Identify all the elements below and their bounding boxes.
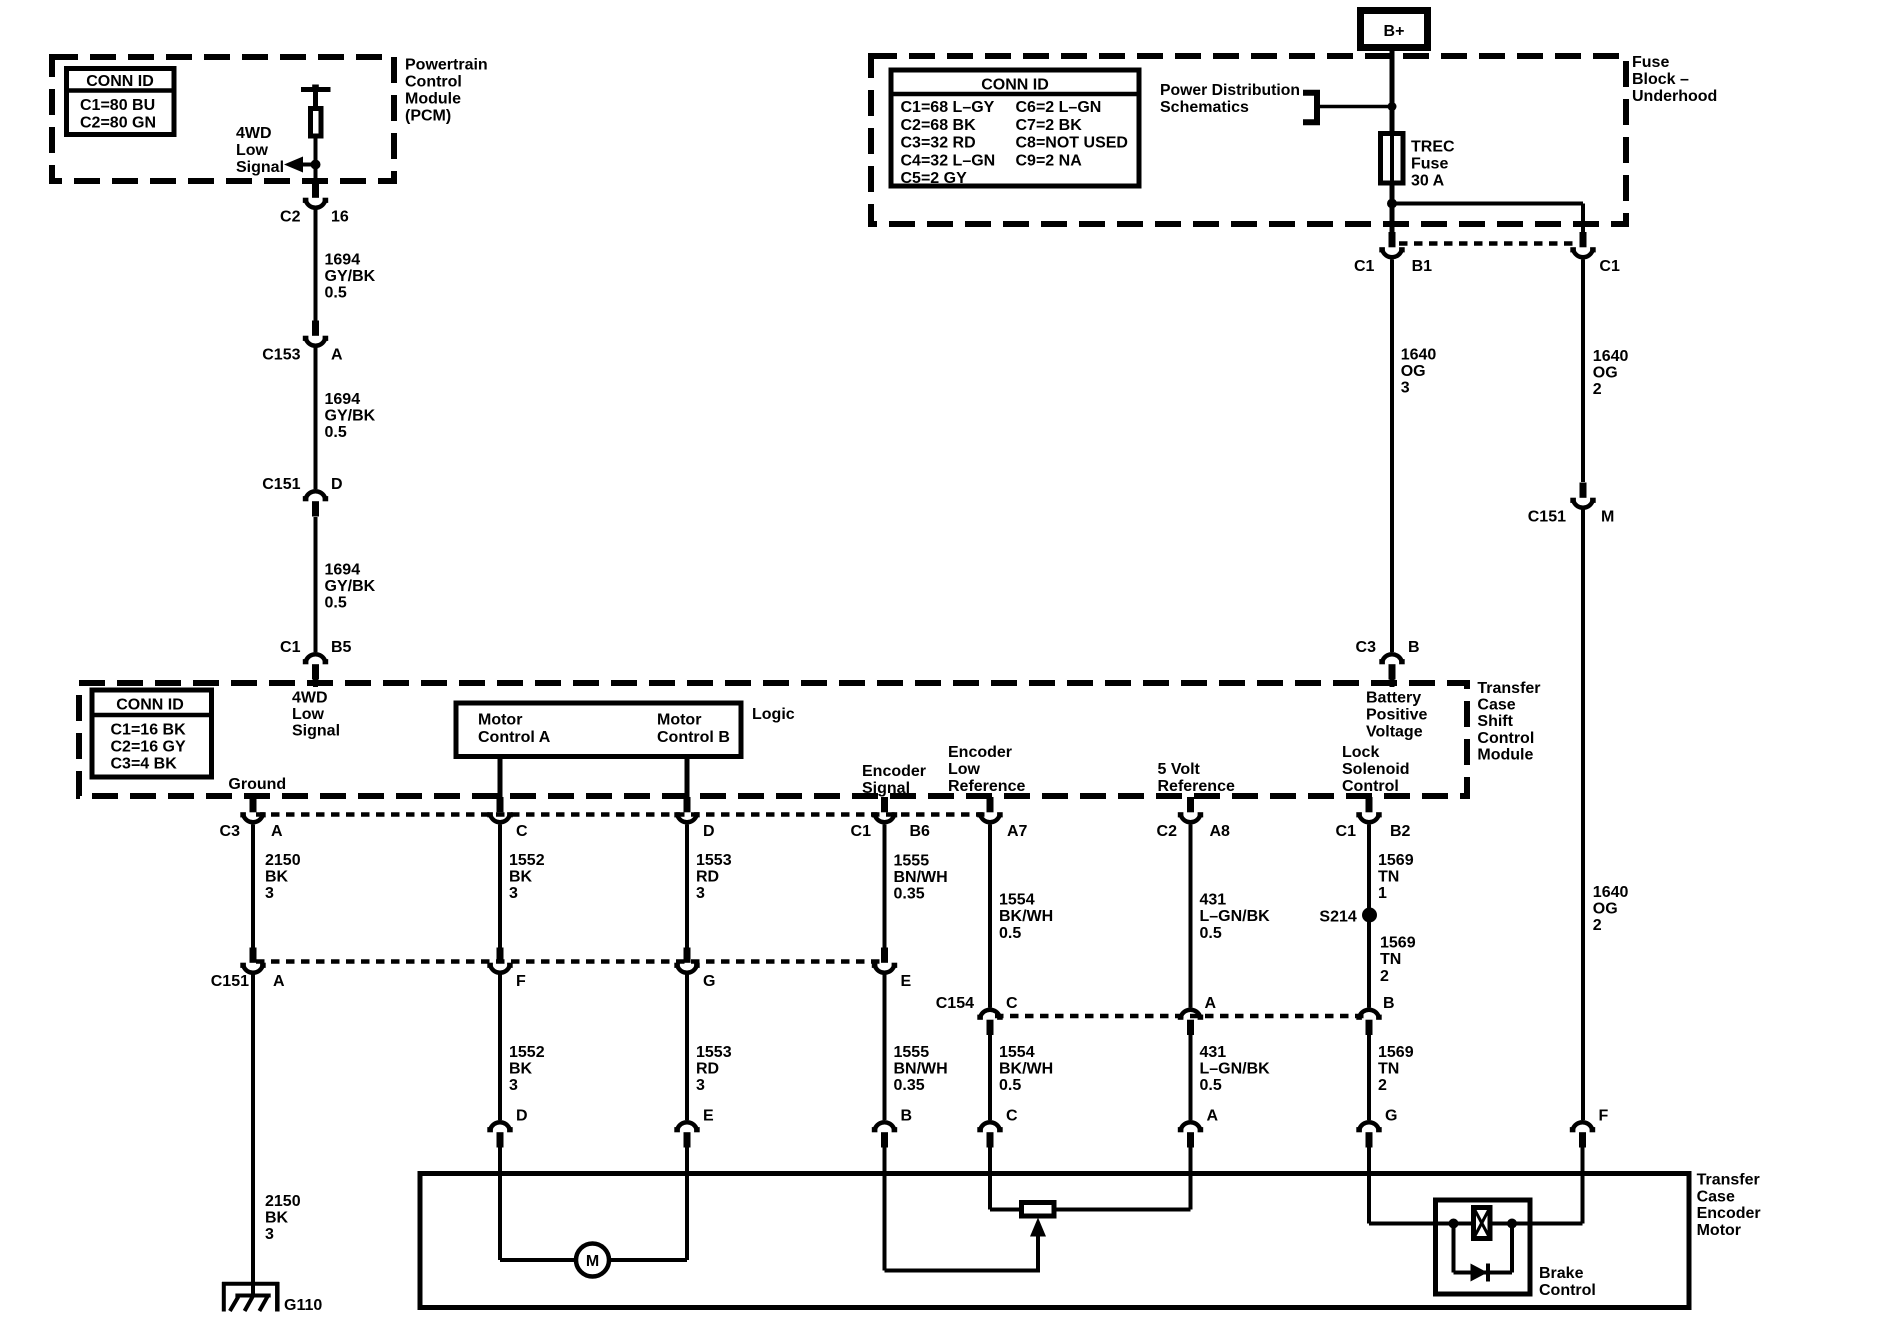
svg-text:TN: TN <box>1380 951 1401 968</box>
svg-text:B: B <box>901 1108 913 1125</box>
svg-text:Case: Case <box>1697 1188 1735 1205</box>
svg-text:1: 1 <box>1378 885 1387 902</box>
svg-text:C1: C1 <box>280 639 301 656</box>
svg-text:TREC: TREC <box>1411 139 1455 156</box>
svg-text:1554: 1554 <box>999 1044 1035 1061</box>
label wire 431 L-GN/BK 0.5 (2) <box>1200 1044 1271 1094</box>
connector C154 pin A (5 volt ref) <box>1178 995 1217 1035</box>
wire 1694 GY/BK 0.5 (C151-D to C1-B5) <box>314 517 318 652</box>
svg-text:C2=16 GY: C2=16 GY <box>111 739 186 756</box>
label wire 1694 GY/BK 0.5 (3) <box>325 562 376 612</box>
svg-text:Control: Control <box>1477 730 1534 747</box>
svg-text:1694: 1694 <box>325 252 361 269</box>
svg-text:G110: G110 <box>284 1297 322 1314</box>
svg-text:L–GN/BK: L–GN/BK <box>1200 1061 1271 1078</box>
svg-text:CONN ID: CONN ID <box>86 73 154 90</box>
svg-text:16: 16 <box>331 209 349 226</box>
label Logic <box>752 706 795 723</box>
svg-text:C9=2 NA: C9=2 NA <box>1016 152 1083 169</box>
label wire 1569 TN 2 <box>1380 935 1416 985</box>
svg-text:BK: BK <box>265 869 289 886</box>
svg-text:A: A <box>271 823 283 840</box>
wire (node to connector B1) <box>1390 204 1395 233</box>
svg-text:C2: C2 <box>280 209 301 226</box>
svg-text:GY/BK: GY/BK <box>325 408 376 425</box>
svg-text:C: C <box>516 823 528 840</box>
brake solenoid <box>1454 1208 1513 1239</box>
module box Fuse Block - Underhood, dashed <box>871 56 1626 224</box>
wire (branch to right drop) <box>1392 202 1583 206</box>
wire (D into motor) <box>500 1148 577 1261</box>
svg-text:0.5: 0.5 <box>325 595 347 612</box>
svg-text:C3: C3 <box>1356 639 1377 656</box>
connector C3 pin B (TCSCM battery) <box>1356 639 1420 680</box>
wire (B+ to fuse) <box>1390 48 1395 134</box>
svg-text:0.5: 0.5 <box>325 424 347 441</box>
svg-text:C154: C154 <box>936 995 974 1012</box>
wire (C3-B pin into TCSCM) <box>1390 678 1395 687</box>
svg-text:Fuse: Fuse <box>1632 54 1669 71</box>
svg-text:0.5: 0.5 <box>325 285 347 302</box>
svg-text:GY/BK: GY/BK <box>325 578 376 595</box>
svg-text:CONN ID: CONN ID <box>116 697 184 714</box>
wire 1555 BN/WH 0.35 (B6 to E) <box>883 825 887 948</box>
svg-text:1569: 1569 <box>1378 1044 1414 1061</box>
connector C2 pin A8 (5 volt reference) <box>1157 797 1231 840</box>
svg-text:C1=80 BU: C1=80 BU <box>80 97 155 114</box>
svg-text:OG: OG <box>1593 901 1618 918</box>
svg-text:(PCM): (PCM) <box>405 108 451 125</box>
svg-text:C2=80 GN: C2=80 GN <box>80 115 156 132</box>
label Battery Positive Voltage <box>1366 689 1427 740</box>
svg-text:G: G <box>1385 1108 1397 1125</box>
svg-text:0.35: 0.35 <box>894 1077 925 1094</box>
svg-text:Brake: Brake <box>1539 1265 1584 1282</box>
wire 1552 BK 3 (C to F) <box>498 825 502 948</box>
label wire 1553 RD 3 (2) <box>696 1044 732 1094</box>
svg-text:F: F <box>516 973 526 990</box>
label wire 1553 RD 3 <box>696 852 732 902</box>
svg-text:C3=32 RD: C3=32 RD <box>901 135 976 152</box>
svg-text:Transfer: Transfer <box>1697 1172 1760 1189</box>
resistor (4WD low signal pull-up, inside PCM) <box>301 85 331 137</box>
node brake solenoid right <box>1507 1219 1517 1229</box>
wire (fuse to branch node) <box>1390 183 1395 204</box>
svg-text:C7=2 BK: C7=2 BK <box>1016 117 1083 134</box>
connector C151 pin D <box>262 476 342 517</box>
module box Powertrain Control Module (PCM), dashed <box>52 57 394 181</box>
svg-text:Block –: Block – <box>1632 71 1689 88</box>
svg-text:Fuse: Fuse <box>1411 156 1448 173</box>
connector pin A (encoder motor) <box>1178 1108 1219 1148</box>
svg-text:2150: 2150 <box>265 1193 301 1210</box>
svg-text:Motor: Motor <box>1697 1222 1741 1239</box>
svg-text:D: D <box>516 1108 528 1125</box>
motor M <box>576 1244 609 1277</box>
svg-text:30 A: 30 A <box>1411 173 1445 190</box>
svg-text:Signal: Signal <box>862 780 910 797</box>
label TREC Fuse 30 A <box>1411 139 1455 190</box>
connector pin G (motor control B) <box>674 948 715 991</box>
label wire 1640 OG 2 (2) <box>1593 884 1629 934</box>
wire 1553 RD 3 (D to G) <box>685 825 689 948</box>
connector C1 pin B1 (fuse block left) <box>1354 232 1432 275</box>
svg-text:Low: Low <box>948 761 981 778</box>
svg-text:BK/WH: BK/WH <box>999 1061 1053 1078</box>
wire 1554 BK/WH 0.5 (A7 to C154-C) <box>988 825 992 1008</box>
logic block (Motor Control A / Motor Control B) <box>456 703 741 757</box>
svg-text:1552: 1552 <box>509 1044 545 1061</box>
svg-text:Control: Control <box>1539 1282 1596 1299</box>
svg-text:5 Volt: 5 Volt <box>1158 761 1201 778</box>
svg-text:3: 3 <box>509 1077 518 1094</box>
svg-text:M: M <box>586 1253 599 1270</box>
svg-text:Motor: Motor <box>657 712 701 729</box>
label wire 1569 TN 2 (2) <box>1378 1044 1414 1094</box>
module box Transfer Case Encoder Motor <box>420 1174 1689 1308</box>
svg-text:0.5: 0.5 <box>999 1077 1021 1094</box>
wire (motor to E) <box>608 1148 687 1261</box>
wire motor control B (logic to edge) <box>685 757 690 799</box>
dashed tie line row C151 <box>256 959 880 964</box>
label wire 1552 BK 3 (2) <box>509 1044 545 1094</box>
svg-text:C2: C2 <box>1157 823 1178 840</box>
svg-text:Low: Low <box>236 142 269 159</box>
svg-text:Low: Low <box>292 706 325 723</box>
wire 431 L-GN/BK 0.5 (C154-A to A) <box>1189 1035 1193 1120</box>
dashed connector tie line C1-C1 <box>1399 241 1576 246</box>
svg-text:BK: BK <box>509 869 533 886</box>
svg-text:Voltage: Voltage <box>1366 723 1423 740</box>
svg-text:Motor: Motor <box>478 712 522 729</box>
svg-text:C1=16 BK: C1=16 BK <box>111 722 187 739</box>
connector C154 pin C (encoder low ref) <box>936 995 1018 1035</box>
connector C2 pin 16 (PCM) <box>280 183 349 226</box>
svg-text:BK/WH: BK/WH <box>999 908 1053 925</box>
svg-text:4WD: 4WD <box>292 690 328 707</box>
wire (right drop to connector C1) <box>1581 204 1585 233</box>
wire 1569 TN 2 (C154-B to G) <box>1367 1035 1371 1120</box>
svg-text:C151: C151 <box>1528 509 1566 526</box>
svg-text:C1: C1 <box>851 823 872 840</box>
svg-text:2: 2 <box>1593 917 1602 934</box>
svg-text:3: 3 <box>696 885 705 902</box>
svg-text:Control B: Control B <box>657 729 730 746</box>
connector pin D (motor control B) <box>674 797 714 840</box>
svg-text:B6: B6 <box>910 823 931 840</box>
svg-text:C4=32 L–GN: C4=32 L–GN <box>901 152 996 169</box>
svg-text:A: A <box>1205 995 1217 1012</box>
connector C1 (fuse block right) <box>1570 232 1620 275</box>
svg-text:L–GN/BK: L–GN/BK <box>1200 908 1271 925</box>
svg-text:B2: B2 <box>1390 823 1411 840</box>
connector pin E (encoder signal) <box>872 948 912 991</box>
potentiometer (encoder) <box>1022 1203 1055 1217</box>
dashed tie line row C154 <box>995 1014 1364 1019</box>
svg-text:1694: 1694 <box>325 562 361 579</box>
svg-text:1640: 1640 <box>1593 348 1629 365</box>
connector C151 pin A (ground) <box>211 948 285 991</box>
svg-text:Module: Module <box>405 91 461 108</box>
connector pin C (motor control A) <box>487 797 528 840</box>
ground G110 <box>222 1282 322 1314</box>
svg-text:A8: A8 <box>1210 823 1231 840</box>
wire 2150 BK 3 (A to C151-A) <box>251 825 255 948</box>
connector pin D (encoder motor) <box>487 1108 527 1148</box>
wire 2150 BK 3 (C151-A to G110) <box>251 975 255 1284</box>
CONN ID table (TCSCM): C1=16 BK, C2=16 GY, C3=4 BK <box>92 690 212 777</box>
node fuse output junction <box>1387 199 1397 209</box>
svg-text:B: B <box>1408 639 1420 656</box>
svg-text:C1: C1 <box>1599 258 1620 275</box>
svg-text:1555: 1555 <box>894 853 930 870</box>
svg-text:B1: B1 <box>1412 258 1433 275</box>
svg-text:C: C <box>1006 1108 1018 1125</box>
wire (resistor to PCM edge) <box>314 139 318 185</box>
svg-text:OG: OG <box>1401 363 1426 380</box>
connector pin F (encoder motor) <box>1570 1108 1609 1148</box>
svg-text:S214: S214 <box>1319 909 1356 926</box>
wire (potentiometer to A) <box>1054 1148 1191 1210</box>
connector C1 pin B5 (TCSCM) <box>280 639 352 680</box>
label Powertrain Control Module (PCM) <box>405 57 488 125</box>
svg-text:C8=NOT USED: C8=NOT USED <box>1016 135 1128 152</box>
svg-text:B: B <box>1383 995 1395 1012</box>
wire 1569 TN 2 (S214 to C154-B) <box>1367 915 1371 1008</box>
svg-text:GY/BK: GY/BK <box>325 268 376 285</box>
svg-text:Encoder: Encoder <box>948 744 1012 761</box>
node brake solenoid left <box>1449 1219 1459 1229</box>
svg-text:E: E <box>901 973 912 990</box>
label wire 1640 OG 2 <box>1593 348 1629 398</box>
svg-text:C1=68 L–GY: C1=68 L–GY <box>901 99 995 116</box>
connector C1 pin B6 (encoder signal) <box>851 797 931 840</box>
svg-text:Logic: Logic <box>752 706 795 723</box>
connector pin F (motor control A) <box>487 948 526 991</box>
svg-text:A: A <box>1207 1108 1219 1125</box>
signal arrow 4WD Low Signal <box>284 157 321 173</box>
connector C153 pin A <box>262 321 343 364</box>
wire 1554 BK/WH 0.5 (C154-C to C) <box>988 1035 992 1120</box>
connector pin G (encoder motor) <box>1356 1108 1397 1148</box>
wire (B to wiper) <box>885 1148 1041 1271</box>
svg-text:2: 2 <box>1378 1077 1387 1094</box>
svg-text:Solenoid: Solenoid <box>1342 761 1410 778</box>
svg-text:E: E <box>703 1108 714 1125</box>
wire 1694 GY/BK 0.5 (C153-A to C151-D) <box>314 348 318 490</box>
svg-text:TN: TN <box>1378 869 1399 886</box>
label wire 431 L-GN/BK 0.5 <box>1200 892 1271 942</box>
splice S214 <box>1319 908 1377 926</box>
svg-text:3: 3 <box>265 1226 274 1243</box>
svg-text:Schematics: Schematics <box>1160 99 1249 116</box>
svg-text:G: G <box>703 973 715 990</box>
svg-text:F: F <box>1599 1108 1609 1125</box>
svg-text:2: 2 <box>1593 381 1602 398</box>
svg-text:0.35: 0.35 <box>894 886 925 903</box>
wire 1640 OG 2 (C151-M to encoder F) <box>1581 510 1585 1121</box>
wire 1555 BN/WH 0.35 (E to B) <box>883 975 887 1121</box>
svg-text:Underhood: Underhood <box>1632 88 1717 105</box>
svg-text:C151: C151 <box>262 476 300 493</box>
label wire 1555 BN/WH 0.35 <box>894 853 948 903</box>
connector pin A7 (encoder low reference) <box>977 797 1027 840</box>
wire motor control A (logic to edge) <box>498 757 503 799</box>
svg-text:1569: 1569 <box>1380 935 1416 952</box>
svg-text:4WD: 4WD <box>236 125 272 142</box>
svg-text:A: A <box>331 347 343 364</box>
dashed tie line row C3/C1 connectors <box>256 812 988 817</box>
wiper arrow (encoder signal) <box>1030 1218 1046 1273</box>
svg-text:BN/WH: BN/WH <box>894 869 948 886</box>
svg-text:1569: 1569 <box>1378 852 1414 869</box>
label Transfer Case Shift Control Module <box>1477 680 1540 764</box>
label wire 1569 TN 1 <box>1378 852 1414 902</box>
svg-text:Control A: Control A <box>478 729 551 746</box>
label Encoder Signal <box>862 763 926 797</box>
label Lock Solenoid Control <box>1342 744 1410 795</box>
svg-text:C1: C1 <box>1354 258 1375 275</box>
svg-text:Signal: Signal <box>236 159 284 176</box>
label Brake Control <box>1539 1265 1596 1299</box>
svg-text:1555: 1555 <box>894 1044 930 1061</box>
label wire 1694 GY/BK 0.5 (2) <box>325 391 376 441</box>
svg-text:Positive: Positive <box>1366 706 1427 723</box>
wire 1552 BK 3 (F to D) <box>498 975 502 1121</box>
svg-text:1553: 1553 <box>696 852 732 869</box>
svg-text:C153: C153 <box>262 347 300 364</box>
svg-text:TN: TN <box>1378 1061 1399 1078</box>
svg-text:C: C <box>1006 995 1018 1012</box>
svg-text:Module: Module <box>1477 747 1533 764</box>
svg-text:A7: A7 <box>1007 823 1028 840</box>
svg-text:Encoder: Encoder <box>1697 1205 1761 1222</box>
connector C1 pin B2 (lock solenoid control) <box>1336 797 1411 840</box>
svg-text:C5=2 GY: C5=2 GY <box>901 170 968 187</box>
svg-text:B+: B+ <box>1384 23 1405 40</box>
wire (C to potentiometer) <box>990 1148 1022 1210</box>
wire 431 L-GN/BK 0.5 (A8 to C154-A) <box>1189 825 1193 1008</box>
svg-text:C2=68 BK: C2=68 BK <box>901 117 977 134</box>
svg-text:0.5: 0.5 <box>1200 1077 1222 1094</box>
label wire 1640 OG 3 <box>1401 346 1437 396</box>
svg-text:431: 431 <box>1200 892 1227 909</box>
svg-text:A: A <box>273 973 285 990</box>
svg-text:3: 3 <box>509 885 518 902</box>
svg-text:0.5: 0.5 <box>999 925 1021 942</box>
svg-text:BN/WH: BN/WH <box>894 1061 948 1078</box>
svg-text:3: 3 <box>265 885 274 902</box>
label Transfer Case Encoder Motor <box>1697 1172 1761 1239</box>
wire 1640 OG 3 (B1 to C3-B) <box>1390 260 1394 653</box>
svg-text:Control: Control <box>405 74 462 91</box>
power node B+ <box>1361 11 1428 48</box>
label wire 1694 GY/BK 0.5 <box>325 252 376 302</box>
svg-text:RD: RD <box>696 1061 719 1078</box>
label Ground <box>228 776 286 793</box>
wire 1694 GY/BK 0.5 (C2-16 to C153-A) <box>314 210 318 322</box>
svg-text:Lock: Lock <box>1342 744 1379 761</box>
label Fuse Block - Underhood <box>1632 54 1717 105</box>
brake control box <box>1436 1200 1531 1294</box>
wire 1569 TN 1 (B2 to S214) <box>1367 825 1371 916</box>
flyback diode <box>1454 1224 1513 1282</box>
svg-text:Ground: Ground <box>228 776 286 793</box>
off-page reference Power Distribution Schematics <box>1160 82 1397 122</box>
svg-text:D: D <box>703 823 715 840</box>
svg-text:C3=4 BK: C3=4 BK <box>111 756 178 773</box>
fuse TREC Fuse 30 A <box>1381 134 1404 184</box>
svg-text:1640: 1640 <box>1593 884 1629 901</box>
connector pin C (encoder motor) <box>977 1108 1018 1148</box>
label wire 2150 BK 3 <box>265 852 301 902</box>
wire (brake to F) <box>1512 1148 1583 1224</box>
svg-text:CONN ID: CONN ID <box>981 77 1049 94</box>
label wire 1554 BK/WH 0.5 <box>999 892 1053 942</box>
connector C3 pin A (ground) <box>220 796 283 840</box>
svg-text:B5: B5 <box>331 639 352 656</box>
label Encoder Low Reference <box>948 744 1025 795</box>
svg-text:2: 2 <box>1380 968 1389 985</box>
connector pin B (encoder motor) <box>872 1108 912 1148</box>
connector C154 pin B (lock solenoid) <box>1356 995 1394 1035</box>
wire 1553 RD 3 (G to E) <box>685 975 689 1121</box>
CONN ID table (PCM): C1=80 BU, C2=80 GN <box>67 69 175 135</box>
svg-text:Case: Case <box>1477 697 1515 714</box>
svg-text:Signal: Signal <box>292 723 340 740</box>
module box Transfer Case Shift Control Module, dashed <box>79 683 1467 796</box>
svg-text:Reference: Reference <box>948 778 1025 795</box>
svg-text:1640: 1640 <box>1401 346 1437 363</box>
CONN ID table (Fuse Block) <box>891 70 1139 187</box>
label wire 2150 BK 3 (2) <box>265 1193 301 1243</box>
svg-text:M: M <box>1601 509 1614 526</box>
label wire 1555 BN/WH 0.35 (2) <box>894 1044 948 1094</box>
svg-text:Powertrain: Powertrain <box>405 57 488 74</box>
svg-text:Transfer: Transfer <box>1477 680 1540 697</box>
label wire 1552 BK 3 <box>509 852 545 902</box>
svg-text:0.5: 0.5 <box>1200 925 1222 942</box>
svg-text:C3: C3 <box>220 823 241 840</box>
svg-text:1552: 1552 <box>509 852 545 869</box>
svg-text:C151: C151 <box>211 973 249 990</box>
svg-text:431: 431 <box>1200 1044 1227 1061</box>
svg-text:BK: BK <box>509 1061 533 1078</box>
svg-text:2150: 2150 <box>265 852 301 869</box>
svg-text:Control: Control <box>1342 778 1399 795</box>
svg-text:Shift: Shift <box>1477 713 1513 730</box>
svg-text:Battery: Battery <box>1366 689 1421 706</box>
svg-text:1694: 1694 <box>325 391 361 408</box>
svg-text:Reference: Reference <box>1158 778 1235 795</box>
connector C151 pin M <box>1528 483 1615 526</box>
svg-text:3: 3 <box>696 1077 705 1094</box>
label wire 1554 BK/WH 0.5 (2) <box>999 1044 1053 1094</box>
svg-text:Power Distribution: Power Distribution <box>1160 82 1300 99</box>
svg-text:OG: OG <box>1593 364 1618 381</box>
svg-text:Encoder: Encoder <box>862 763 926 780</box>
label 4WD Low Signal (PCM) <box>236 125 284 176</box>
wire (G to brake solenoid) <box>1369 1148 1454 1224</box>
wire (B5 pin into TCSCM) <box>313 678 318 687</box>
wire 1640 OG 2 (C1 to C151-M) <box>1581 260 1585 483</box>
svg-text:1554: 1554 <box>999 892 1035 909</box>
svg-text:RD: RD <box>696 869 719 886</box>
svg-text:3: 3 <box>1401 380 1410 397</box>
svg-text:1553: 1553 <box>696 1044 732 1061</box>
connector pin E (encoder motor) <box>674 1108 714 1148</box>
svg-text:C1: C1 <box>1336 823 1357 840</box>
